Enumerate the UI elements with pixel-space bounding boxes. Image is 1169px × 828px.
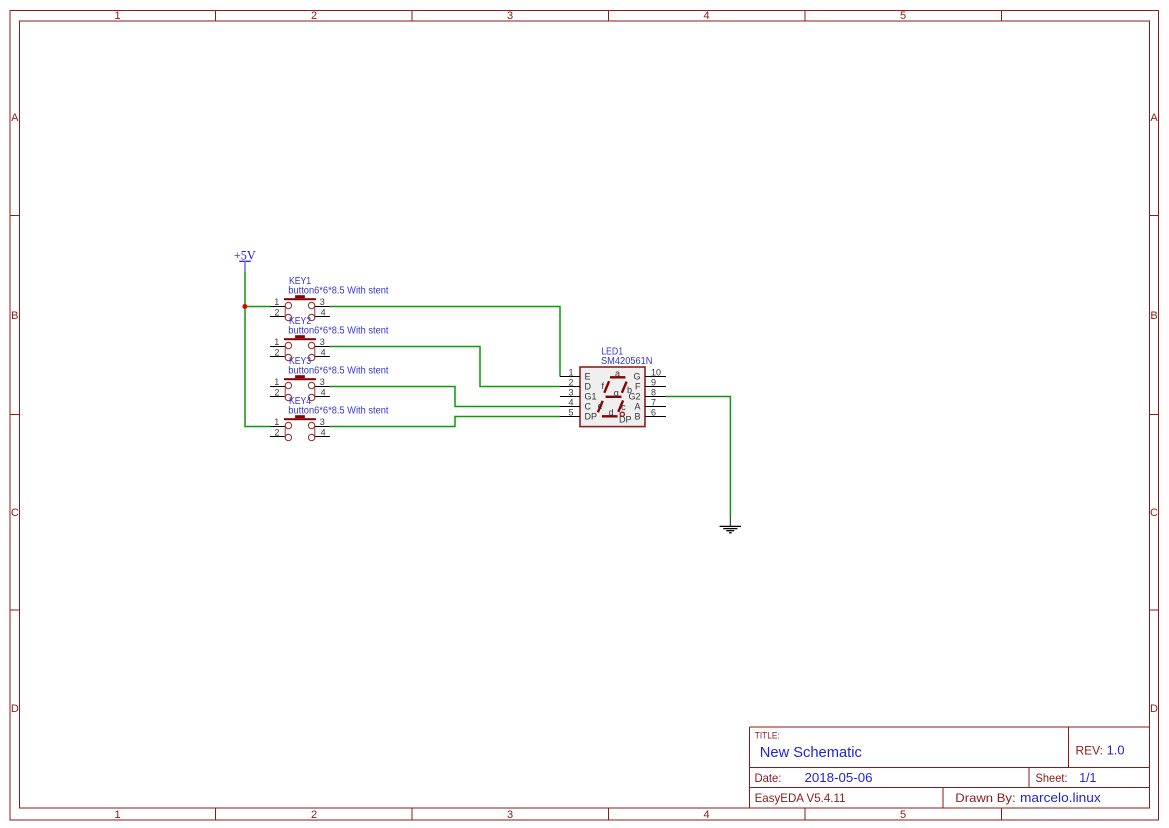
svg-text:A: A bbox=[1150, 112, 1158, 124]
svg-text:1/1: 1/1 bbox=[1079, 770, 1096, 785]
LED1 pin 1 bbox=[560, 376, 580, 378]
svg-text:D: D bbox=[1150, 703, 1158, 715]
svg-text:DP: DP bbox=[585, 412, 598, 422]
svg-text:8: 8 bbox=[651, 387, 656, 397]
svg-text:G: G bbox=[633, 372, 640, 382]
LED1 body bbox=[580, 367, 645, 427]
pushbutton KEY1 bbox=[270, 276, 389, 320]
KEY2 pin 4 bbox=[315, 356, 330, 358]
wire KEY1 pin 3 to LED1 pin 1 bbox=[330, 307, 560, 377]
KEY3 pin 4 bbox=[315, 396, 330, 398]
pushbutton KEY2 bbox=[270, 316, 389, 360]
LED1 segment e bbox=[598, 401, 603, 413]
KEY3 actuator bbox=[295, 375, 305, 378]
KEY4 actuator bbox=[295, 415, 305, 418]
ground bbox=[720, 516, 741, 533]
svg-text:3: 3 bbox=[320, 297, 325, 307]
svg-text:C: C bbox=[11, 507, 19, 519]
svg-text:G1: G1 bbox=[585, 392, 597, 402]
svg-text:1: 1 bbox=[114, 10, 120, 22]
power flag +5V bbox=[234, 248, 257, 272]
KEY2 actuator bbox=[295, 335, 305, 338]
svg-text:TITLE:: TITLE: bbox=[755, 731, 780, 741]
KEY4 contacts bbox=[285, 422, 291, 428]
svg-text:b: b bbox=[627, 385, 632, 395]
svg-text:4: 4 bbox=[321, 387, 326, 397]
KEY2 pin 2 bbox=[270, 356, 285, 358]
svg-text:2: 2 bbox=[274, 427, 279, 437]
svg-text:1: 1 bbox=[274, 377, 279, 387]
svg-text:marcelo.linux: marcelo.linux bbox=[1020, 790, 1101, 805]
KEY2 pin 3 bbox=[315, 346, 330, 348]
LED1 pin 6 bbox=[645, 416, 666, 418]
svg-text:button6*6*8.5 With stent: button6*6*8.5 With stent bbox=[288, 365, 388, 376]
LED1 pin 2 bbox=[560, 386, 580, 388]
junction at +5V / KEY1 pin 1 bbox=[242, 304, 247, 309]
LED1 decimal point bbox=[620, 412, 624, 416]
svg-text:3: 3 bbox=[507, 10, 513, 22]
KEY4 pin 2 bbox=[270, 436, 285, 438]
svg-text:Date:: Date: bbox=[755, 771, 782, 785]
svg-text:4: 4 bbox=[703, 10, 709, 22]
svg-text:E: E bbox=[585, 372, 591, 382]
svg-text:9: 9 bbox=[651, 377, 656, 387]
KEY4 body sides bbox=[284, 426, 286, 438]
LED1 segment letters bbox=[598, 369, 632, 425]
svg-text:2: 2 bbox=[274, 347, 279, 357]
svg-text:10: 10 bbox=[651, 367, 661, 377]
KEY4 pin 3 bbox=[315, 426, 330, 428]
KEY4 pin 4 bbox=[315, 436, 330, 438]
svg-text:A: A bbox=[11, 112, 19, 124]
svg-text:6: 6 bbox=[651, 407, 656, 417]
svg-text:1: 1 bbox=[274, 297, 279, 307]
svg-text:button6*6*8.5 With stent: button6*6*8.5 With stent bbox=[288, 325, 388, 336]
KEY3 pin 2 bbox=[270, 396, 285, 398]
svg-text:2018-05-06: 2018-05-06 bbox=[805, 770, 873, 785]
svg-text:5: 5 bbox=[900, 10, 906, 22]
LED1 segment g bbox=[606, 396, 622, 398]
svg-text:2: 2 bbox=[311, 809, 317, 821]
KEY1 pin 2 bbox=[270, 316, 285, 318]
svg-text:4: 4 bbox=[568, 397, 573, 407]
LED1 pin 9 bbox=[645, 386, 666, 388]
LED1 segment c bbox=[618, 400, 623, 412]
LED1 pin 8 bbox=[645, 396, 666, 398]
svg-text:D: D bbox=[11, 703, 19, 715]
KEY2 pin 1 bbox=[270, 346, 285, 348]
svg-text:DP: DP bbox=[619, 415, 632, 425]
LED1 right pin numbers bbox=[651, 367, 661, 417]
KEY1 pin 1 bbox=[270, 306, 285, 308]
svg-text:2: 2 bbox=[274, 387, 279, 397]
svg-text:5: 5 bbox=[900, 809, 906, 821]
svg-text:A: A bbox=[634, 402, 640, 412]
svg-text:1: 1 bbox=[274, 417, 279, 427]
svg-text:B: B bbox=[11, 310, 18, 322]
LED1 segment f bbox=[604, 381, 609, 393]
svg-text:1: 1 bbox=[274, 337, 279, 347]
KEY3 body sides bbox=[284, 386, 286, 398]
svg-text:+5V: +5V bbox=[234, 248, 257, 263]
svg-text:D: D bbox=[585, 382, 592, 392]
svg-text:a: a bbox=[615, 369, 620, 379]
LED1 segment d bbox=[602, 415, 618, 417]
KEY4 pin 1 bbox=[270, 426, 285, 428]
svg-text:B: B bbox=[1150, 310, 1157, 322]
svg-text:button6*6*8.5 With stent: button6*6*8.5 With stent bbox=[288, 285, 388, 296]
KEY2 body sides bbox=[284, 346, 286, 358]
svg-text:Sheet:: Sheet: bbox=[1036, 771, 1068, 785]
title block bbox=[750, 727, 1150, 808]
wire KEY4 pin 3 to LED1 pin 5 bbox=[330, 417, 560, 427]
svg-text:5: 5 bbox=[568, 407, 573, 417]
LED1 pin 10 bbox=[645, 376, 666, 378]
svg-text:2: 2 bbox=[274, 307, 279, 317]
svg-text:Drawn By:: Drawn By: bbox=[955, 791, 1015, 805]
LED1 right pin names bbox=[628, 372, 641, 422]
svg-text:REV:: REV: bbox=[1076, 743, 1104, 757]
pushbutton KEY3 bbox=[270, 356, 389, 400]
svg-text:3: 3 bbox=[320, 377, 325, 387]
KEY3 contacts bbox=[285, 382, 291, 388]
svg-text:New Schematic: New Schematic bbox=[760, 744, 862, 761]
KEY1 pin 4 bbox=[315, 316, 330, 318]
wire +5V bus to KEY4 pin 1 bbox=[245, 271, 270, 426]
LED1 left pin names bbox=[585, 372, 598, 422]
svg-text:4: 4 bbox=[321, 347, 326, 357]
svg-text:1.0: 1.0 bbox=[1107, 742, 1125, 757]
wire KEY2 pin 3 to LED1 pin 2 bbox=[330, 347, 560, 387]
svg-text:3: 3 bbox=[568, 387, 573, 397]
7-segment display LED1 bbox=[560, 347, 666, 427]
LED1 pin 4 bbox=[560, 406, 580, 408]
svg-text:B: B bbox=[634, 412, 640, 422]
svg-text:1: 1 bbox=[568, 367, 573, 377]
LED1 pin 7 bbox=[645, 406, 666, 408]
LED1 segment a bbox=[610, 376, 625, 378]
svg-text:SM420561N: SM420561N bbox=[601, 356, 653, 367]
pushbutton KEY4 bbox=[270, 396, 389, 440]
svg-text:c: c bbox=[621, 402, 626, 412]
svg-text:g: g bbox=[614, 388, 619, 398]
svg-text:4: 4 bbox=[703, 809, 709, 821]
KEY1 body sides bbox=[284, 306, 286, 318]
svg-text:button6*6*8.5 With stent: button6*6*8.5 With stent bbox=[288, 405, 388, 416]
KEY2 contacts bbox=[285, 342, 291, 348]
svg-text:3: 3 bbox=[507, 809, 513, 821]
LED1 pin 5 bbox=[560, 416, 580, 418]
wire +5V branch to KEY1 pin 1 bbox=[245, 306, 270, 308]
svg-text:e: e bbox=[598, 401, 603, 411]
svg-text:C: C bbox=[1150, 507, 1158, 519]
LED1 segment b bbox=[622, 382, 627, 393]
wire KEY3 pin 3 to LED1 pin 4 bbox=[330, 387, 560, 407]
svg-text:EasyEDA V5.4.11: EasyEDA V5.4.11 bbox=[755, 791, 846, 805]
svg-text:7: 7 bbox=[651, 397, 656, 407]
svg-text:2: 2 bbox=[568, 377, 573, 387]
svg-text:1: 1 bbox=[114, 809, 120, 821]
KEY1 actuator bbox=[295, 295, 305, 298]
LED1 pin 3 bbox=[560, 396, 580, 398]
svg-text:F: F bbox=[635, 382, 641, 392]
svg-text:C: C bbox=[585, 402, 592, 412]
svg-text:4: 4 bbox=[321, 307, 326, 317]
KEY1 contacts bbox=[285, 302, 291, 308]
svg-text:3: 3 bbox=[320, 417, 325, 427]
svg-text:2: 2 bbox=[311, 10, 317, 22]
KEY3 pin 1 bbox=[270, 386, 285, 388]
svg-text:3: 3 bbox=[320, 337, 325, 347]
svg-text:d: d bbox=[609, 408, 614, 418]
LED1 left pin numbers bbox=[568, 367, 573, 417]
svg-text:4: 4 bbox=[321, 427, 326, 437]
wire LED1 pin 8 to ground bbox=[666, 397, 730, 517]
KEY3 pin 3 bbox=[315, 386, 330, 388]
KEY1 pin 3 bbox=[315, 306, 330, 308]
